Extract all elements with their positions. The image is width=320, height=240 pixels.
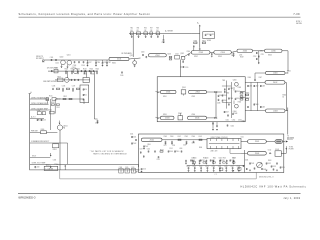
svg-text:CNTRL VOLT TEMP: CNTRL VOLT TEMP (32, 163, 46, 165)
svg-text:R202: R202 (168, 54, 172, 56)
svg-text:C165: C165 (125, 167, 128, 169)
svg-text:R154: R154 (37, 110, 41, 112)
svg-text:C405: C405 (261, 106, 265, 108)
svg-text:C350: C350 (236, 98, 240, 100)
svg-text:R503: R503 (268, 160, 271, 162)
svg-text:C545: C545 (219, 157, 223, 159)
svg-text:R344: R344 (238, 102, 241, 104)
svg-text:Q202: Q202 (180, 53, 184, 55)
svg-text:TO RX: TO RX (289, 147, 293, 149)
svg-text:C513: C513 (147, 149, 150, 151)
svg-text:C345: C345 (219, 95, 223, 97)
svg-text:C543: C543 (205, 157, 209, 159)
svg-text:SWITCH: SWITCH (287, 139, 293, 141)
svg-text:C547: C547 (232, 157, 236, 159)
svg-text:6880903Z93-O: 6880903Z93-O (259, 177, 274, 179)
svg-text:Q4501: Q4501 (63, 126, 68, 128)
svg-text:C101: C101 (50, 57, 54, 59)
svg-text:TP150: TP150 (54, 164, 58, 166)
svg-text:C342: C342 (223, 100, 227, 102)
svg-text:July 1, 2002: July 1, 2002 (283, 198, 300, 200)
svg-text:C135: C135 (62, 86, 66, 88)
svg-text:C401: C401 (249, 85, 253, 87)
svg-text:PWR SET: PWR SET (31, 130, 38, 132)
svg-text:Z403: Z403 (273, 110, 277, 112)
svg-text:C168: C168 (119, 167, 122, 169)
svg-text:R152: R152 (64, 96, 68, 98)
svg-text:C102: C102 (55, 63, 59, 65)
svg-text:C341: C341 (223, 95, 227, 97)
svg-text:R209: R209 (240, 57, 244, 59)
svg-text:C521: C521 (193, 166, 196, 168)
svg-text:C519: C519 (192, 143, 195, 145)
svg-text:50: 50 (282, 96, 284, 98)
svg-text:R501: R501 (160, 149, 164, 151)
svg-text:C131: C131 (83, 74, 87, 76)
svg-text:C514: C514 (169, 148, 172, 150)
svg-text:W401: W401 (287, 71, 291, 73)
svg-text:C32: C32 (144, 30, 147, 32)
svg-text:7-39: 7-39 (293, 12, 300, 16)
svg-text:R124: R124 (90, 68, 94, 70)
svg-text:R513: R513 (223, 158, 226, 160)
svg-text:Z204: Z204 (221, 52, 225, 54)
svg-text:Z501: Z501 (150, 140, 154, 142)
svg-text:C153: C153 (42, 119, 46, 121)
svg-text:C515: C515 (157, 159, 160, 161)
svg-text:Z303: Z303 (165, 118, 169, 120)
svg-text:K9.1V: K9.1V (32, 155, 36, 157)
svg-text:C354: C354 (231, 125, 235, 127)
svg-text:C33: C33 (150, 30, 153, 32)
svg-text:Schematics, Component Location: Schematics, Component Location Diagrams,… (19, 12, 151, 16)
svg-text:VR301: VR301 (207, 40, 211, 42)
svg-text:C541: C541 (191, 157, 195, 159)
svg-text:L506: L506 (179, 148, 182, 150)
svg-text:C504: C504 (170, 136, 174, 138)
svg-text:L508: L508 (183, 145, 186, 147)
svg-text:C137: C137 (72, 86, 76, 88)
svg-text:C132: C132 (91, 74, 95, 76)
svg-text:CR151: CR151 (53, 149, 58, 151)
svg-text:C344: C344 (230, 98, 234, 100)
svg-text:Q301: Q301 (182, 87, 186, 89)
svg-text:C528: C528 (237, 166, 240, 168)
svg-text:R301: R301 (194, 41, 198, 43)
svg-text:C117: C117 (88, 62, 91, 64)
svg-text:C510: C510 (176, 151, 180, 153)
svg-text:R10: R10 (84, 89, 87, 91)
svg-text:C518: C518 (172, 145, 175, 147)
svg-text:C31: C31 (136, 30, 139, 32)
svg-text:C404: C404 (255, 104, 259, 106)
svg-text:C532: C532 (267, 163, 271, 165)
svg-text:C506: C506 (192, 136, 196, 138)
svg-text:R130: R130 (54, 68, 58, 70)
svg-text:Z101: Z101 (117, 59, 121, 61)
svg-text:R34: R34 (131, 28, 134, 30)
svg-text:50: 50 (287, 72, 289, 74)
svg-text:R123: R123 (83, 68, 87, 70)
svg-text:Z401: Z401 (273, 73, 277, 75)
svg-text:C406: C406 (248, 77, 252, 79)
svg-text:C522: C522 (199, 166, 202, 168)
svg-text:FL501: FL501 (275, 149, 279, 151)
svg-text:C159: C159 (36, 167, 40, 169)
svg-text:R160: R160 (41, 129, 45, 131)
svg-text:C531: C531 (251, 163, 255, 165)
svg-text:R343: R343 (238, 87, 241, 89)
svg-text:Z203: Z203 (199, 52, 203, 54)
svg-text:C533: C533 (272, 166, 276, 168)
svg-text:T301: T301 (222, 80, 225, 82)
svg-text:C526: C526 (224, 166, 227, 168)
svg-text:W204: W204 (268, 54, 272, 56)
svg-text:R35: R35 (137, 28, 140, 30)
svg-text:C502: C502 (133, 143, 137, 145)
svg-text:C140: C140 (120, 75, 124, 77)
svg-text:R11: R11 (84, 94, 87, 96)
svg-text:C527: C527 (231, 166, 234, 168)
svg-text:Z202: Z202 (155, 55, 159, 57)
svg-text:C 2: C 2 (215, 174, 217, 176)
svg-text:C151: C151 (56, 107, 60, 109)
svg-text:PARTS ORDERED BY REFERENCE: PARTS ORDERED BY REFERENCE (93, 152, 127, 155)
svg-text:C505: C505 (185, 136, 189, 138)
svg-text:Q302: Q302 (178, 113, 182, 115)
svg-text:C320: C320 (206, 34, 210, 36)
svg-text:C211: C211 (261, 54, 264, 56)
svg-text:C347: C347 (225, 111, 229, 113)
svg-text:Q304: Q304 (233, 111, 237, 113)
svg-text:C501: C501 (133, 136, 137, 138)
svg-text:C204: C204 (175, 54, 179, 56)
svg-text:C520: C520 (186, 166, 189, 168)
svg-text:C516: C516 (142, 169, 146, 171)
svg-text:Z502: Z502 (255, 141, 259, 143)
svg-text:C112: C112 (103, 62, 106, 64)
svg-text:T302: T302 (226, 93, 229, 95)
svg-text:C512: C512 (268, 150, 272, 152)
svg-text:C343: C343 (230, 88, 234, 90)
svg-text:C220: C220 (185, 67, 188, 69)
svg-text:C158: C158 (53, 159, 57, 161)
svg-text:Z304: Z304 (195, 118, 199, 120)
svg-text:R151: R151 (49, 96, 53, 98)
svg-text:R506: R506 (199, 147, 202, 149)
svg-text:R505: R505 (148, 144, 151, 146)
svg-text:Z206: Z206 (271, 51, 275, 53)
svg-text:W203: W203 (218, 56, 222, 58)
svg-text:C161: C161 (131, 167, 134, 169)
svg-text:C212: C212 (253, 56, 257, 58)
svg-text:W303: W303 (163, 114, 167, 116)
svg-text:C206: C206 (187, 51, 191, 53)
svg-text:R133: R133 (58, 76, 62, 78)
svg-text:C509: C509 (169, 151, 173, 153)
svg-text:C523: C523 (205, 166, 208, 168)
svg-text:C103: C103 (73, 65, 77, 67)
svg-text:C116: C116 (97, 62, 100, 64)
svg-text:C407: C407 (259, 77, 263, 79)
svg-text:W402: W402 (282, 94, 286, 96)
svg-text:FILTER: FILTER (289, 148, 294, 150)
svg-text:C534: C534 (281, 167, 285, 169)
svg-text:R37: R37 (150, 28, 153, 30)
svg-text:R345: R345 (242, 121, 245, 123)
svg-text:C352: C352 (232, 120, 236, 122)
svg-text:C348: C348 (234, 113, 238, 115)
svg-text:C34: C34 (156, 30, 159, 32)
svg-text:SHOWN: SHOWN (296, 23, 302, 25)
svg-text:W304: W304 (192, 114, 196, 116)
svg-text:L205: L205 (239, 55, 242, 57)
svg-text:HLD8042C VHF 100-Watt PA Schem: HLD8042C VHF 100-Watt PA Schematic (241, 186, 307, 189)
svg-text:C30: C30 (130, 30, 133, 32)
svg-text:Q303: Q303 (233, 79, 237, 81)
svg-text:C351: C351 (226, 120, 230, 122)
svg-text:C349: C349 (236, 91, 240, 93)
svg-text:L502: L502 (178, 136, 181, 138)
svg-text:W301: W301 (163, 96, 167, 98)
svg-text:W201: W201 (112, 62, 116, 64)
svg-text:C524: C524 (212, 166, 215, 168)
svg-text:R512: R512 (213, 158, 216, 160)
svg-text:L504: L504 (245, 160, 248, 162)
svg-text:Z301: Z301 (166, 92, 170, 94)
svg-text:C403: C403 (261, 85, 265, 87)
svg-text:C321: C321 (211, 34, 215, 36)
svg-text:Q103: Q103 (72, 67, 76, 69)
svg-text:Z302: Z302 (196, 92, 200, 94)
svg-text:R401: R401 (246, 93, 250, 95)
svg-text:R120: R120 (65, 68, 69, 70)
svg-text:R402: R402 (246, 97, 250, 99)
svg-text:Q101: Q101 (67, 55, 71, 57)
svg-text:R153: R153 (51, 102, 55, 104)
svg-text:Q100: Q100 (60, 56, 64, 58)
svg-text:NOTE 1: NOTE 1 (296, 21, 302, 23)
svg-text:C503: C503 (164, 136, 168, 138)
svg-text:C104: C104 (81, 65, 85, 67)
svg-text:C517: C517 (164, 145, 167, 147)
svg-text:L503: L503 (199, 136, 202, 138)
svg-text:FROM TX: FROM TX (36, 56, 43, 58)
svg-text:R341: R341 (240, 91, 244, 93)
svg-text:W302: W302 (192, 96, 196, 98)
svg-text:C203: C203 (141, 52, 145, 54)
svg-text:C133: C133 (52, 86, 56, 88)
svg-text:C210: C210 (260, 51, 264, 53)
svg-text:C117: C117 (108, 62, 111, 64)
svg-text:C346: C346 (217, 103, 221, 105)
svg-text:C402: C402 (255, 85, 259, 87)
svg-text:68P81096E55-O: 68P81096E55-O (18, 197, 35, 199)
svg-text:R38: R38 (156, 28, 159, 30)
svg-text:TP151: TP151 (46, 165, 50, 167)
svg-text:Z503: Z503 (255, 153, 259, 155)
svg-text:W202: W202 (194, 56, 198, 58)
svg-text:R36: R36 (144, 28, 147, 30)
svg-text:L507: L507 (140, 149, 143, 151)
svg-text:L501: L501 (130, 133, 133, 135)
svg-text:Z402: Z402 (273, 82, 277, 84)
svg-text:R302: R302 (202, 41, 206, 43)
svg-text:Z205: Z205 (243, 51, 247, 53)
svg-text:R125: R125 (96, 68, 100, 70)
